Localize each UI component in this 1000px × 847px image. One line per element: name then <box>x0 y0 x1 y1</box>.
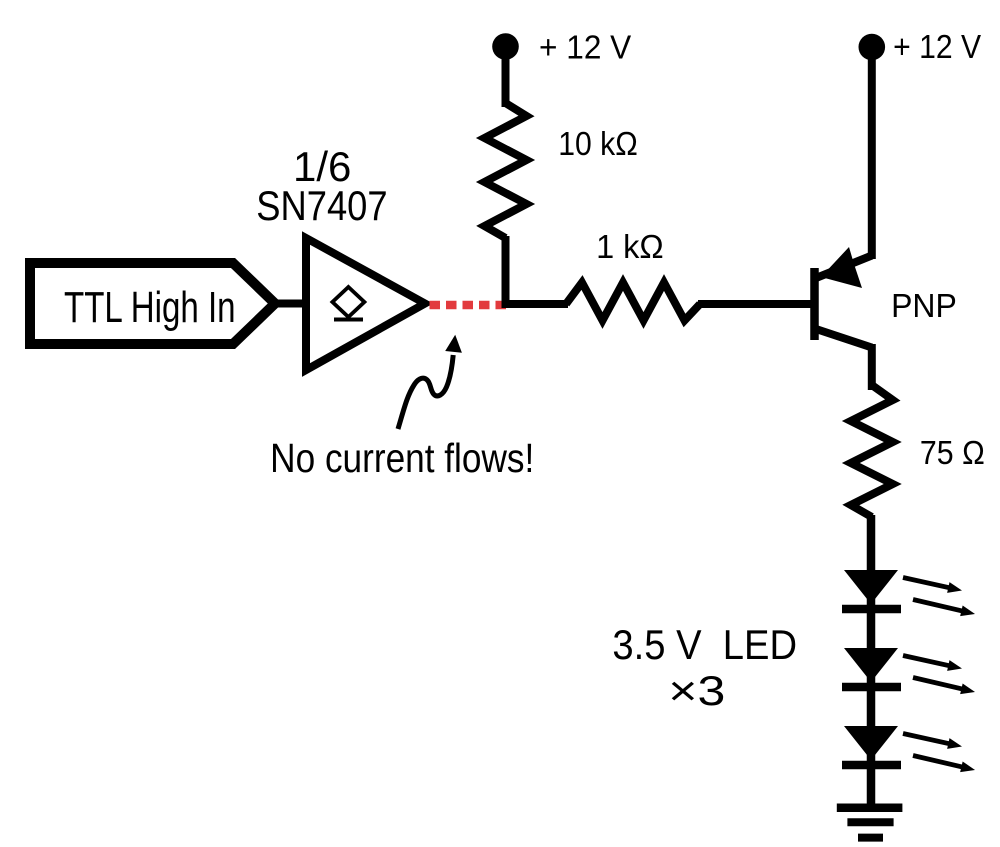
svg-text:3.5 V LED: 3.5 V LED <box>612 621 797 668</box>
svg-text:+ 12 V: + 12 V <box>893 28 981 66</box>
svg-text:75 Ω: 75 Ω <box>920 434 985 471</box>
svg-text:SN7407: SN7407 <box>256 183 387 230</box>
svg-text:+ 12 V: + 12 V <box>539 29 632 66</box>
svg-text:×3: ×3 <box>668 667 725 714</box>
svg-text:No current flows!: No current flows! <box>270 436 534 482</box>
svg-text:TTL High In: TTL High In <box>64 284 236 333</box>
svg-text:1 kΩ: 1 kΩ <box>596 228 664 265</box>
svg-text:PNP: PNP <box>891 288 957 325</box>
svg-text:10 kΩ: 10 kΩ <box>558 125 637 163</box>
